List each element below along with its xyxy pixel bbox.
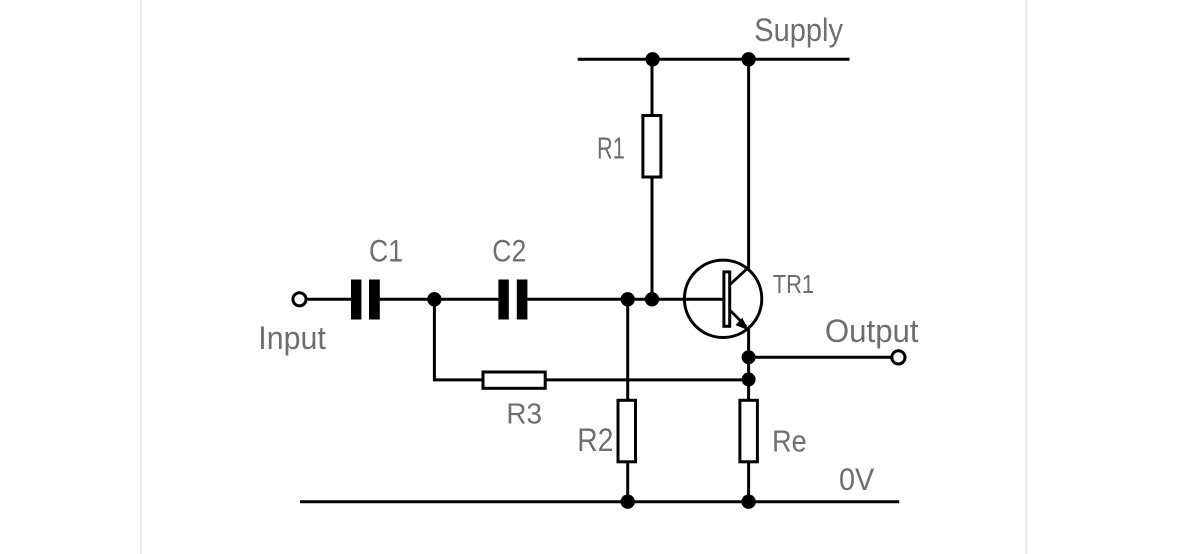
resistor R2: [618, 400, 636, 462]
resistor R3: [483, 372, 545, 388]
0V rail wire: [300, 500, 899, 503]
svg-text:C2: C2: [492, 232, 526, 268]
svg-text:TR1: TR1: [773, 269, 814, 299]
wire supply to R1 top: [651, 59, 654, 116]
wire R3 to bootstrap node: [545, 378, 748, 381]
wire emitter down to output node: [747, 329, 750, 358]
svg-text:Output: Output: [825, 313, 919, 349]
wire collector to supply: [747, 59, 750, 268]
junction Re at 0V rail: [741, 495, 755, 509]
svg-text:Re: Re: [772, 423, 807, 458]
wire R1 bottom to base node: [651, 177, 654, 299]
junction on supply rail above TR1 collector: [741, 52, 755, 66]
svg-text:Supply: Supply: [754, 12, 843, 48]
Input terminal: [293, 293, 306, 306]
Output terminal: [892, 351, 905, 364]
svg-text:0V: 0V: [839, 461, 874, 497]
capacitor C1: [351, 280, 380, 320]
wire node A down and right to R3: [434, 299, 483, 380]
resistor R1: [643, 116, 661, 178]
junction R2 at 0V rail: [621, 495, 635, 509]
wire bootstrap node down to Re: [747, 379, 750, 400]
junction base node to R2: [621, 292, 635, 306]
wire output node to output terminal: [749, 356, 891, 359]
svg-text:R2: R2: [577, 422, 613, 458]
junction base node to R1: [645, 292, 659, 306]
resistor Re: [740, 400, 758, 462]
capacitor C2: [498, 280, 527, 320]
svg-text:Input: Input: [258, 320, 326, 356]
svg-text:C1: C1: [369, 232, 403, 268]
supply rail wire: [578, 58, 850, 61]
wire input terminal to C1: [308, 298, 352, 301]
wire R2 to 0V rail: [626, 462, 629, 502]
wire output node to bootstrap node: [747, 357, 750, 379]
wire Re to 0V rail: [747, 462, 750, 502]
wire C1 to C2: [380, 298, 499, 301]
svg-text:R1: R1: [597, 130, 625, 165]
wire base node down to R2: [626, 299, 629, 400]
transistor TR1: [684, 260, 761, 337]
junction bootstrap/Re node: [742, 372, 756, 386]
wire C2 to TR1 base: [527, 298, 722, 301]
junction node A (bootstrap tap): [427, 292, 441, 306]
svg-text:R3: R3: [506, 398, 542, 430]
junction output node: [742, 350, 756, 364]
junction on supply rail above R1: [645, 52, 659, 66]
